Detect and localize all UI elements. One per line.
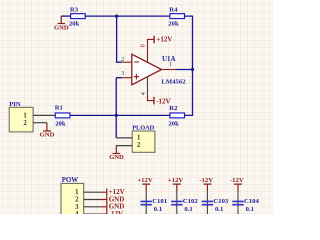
svg-text:3: 3 — [75, 204, 79, 211]
svg-text:-12V: -12V — [156, 98, 170, 106]
svg-text:2: 2 — [75, 197, 79, 204]
svg-text:-12V: -12V — [109, 210, 123, 214]
svg-text:PIN: PIN — [9, 101, 21, 108]
svg-text:20k: 20k — [55, 121, 66, 128]
svg-text:+12V: +12V — [137, 177, 152, 184]
svg-text:C101: C101 — [152, 198, 167, 205]
svg-text:C103: C103 — [213, 198, 229, 205]
svg-text:PLOAD: PLOAD — [132, 124, 154, 131]
svg-text:20k: 20k — [69, 21, 80, 28]
svg-text:C102: C102 — [183, 198, 199, 205]
svg-text:R2: R2 — [169, 105, 178, 112]
svg-text:+12V: +12V — [156, 36, 172, 44]
svg-text:R3: R3 — [70, 7, 79, 14]
svg-text:1: 1 — [137, 134, 141, 141]
svg-text:3: 3 — [121, 70, 124, 77]
svg-text:+12V: +12V — [168, 177, 183, 184]
svg-text:POW: POW — [62, 177, 79, 184]
svg-text:1: 1 — [75, 189, 79, 196]
svg-text:-12V: -12V — [230, 177, 244, 184]
svg-text:U1A: U1A — [162, 55, 176, 63]
svg-text:20k: 20k — [168, 121, 179, 128]
svg-text:8: 8 — [140, 44, 147, 47]
svg-text:R1: R1 — [55, 105, 63, 112]
svg-text:0.1: 0.1 — [246, 206, 254, 213]
svg-text:R4: R4 — [169, 7, 178, 14]
svg-text:2: 2 — [137, 142, 141, 149]
svg-text:0.1: 0.1 — [215, 206, 223, 213]
svg-text:0.1: 0.1 — [184, 206, 192, 213]
svg-text:4: 4 — [75, 211, 79, 214]
svg-text:C104: C104 — [244, 198, 260, 205]
svg-text:2: 2 — [23, 120, 27, 127]
svg-text:2: 2 — [121, 56, 124, 63]
svg-text:GND: GND — [40, 132, 55, 139]
svg-text:LM4562: LM4562 — [161, 78, 186, 85]
svg-text:GND: GND — [109, 154, 124, 161]
svg-text:-12V: -12V — [199, 177, 213, 184]
svg-text:0.1: 0.1 — [154, 206, 162, 213]
svg-text:1: 1 — [23, 113, 27, 120]
svg-text:20k: 20k — [168, 21, 179, 28]
svg-text:GND: GND — [54, 24, 69, 31]
